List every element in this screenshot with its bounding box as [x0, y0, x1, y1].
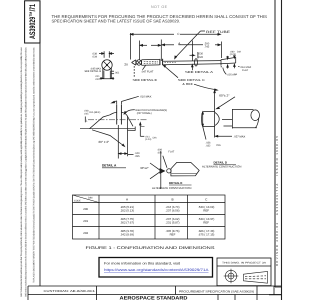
detail D large body with dome end	[232, 109, 259, 129]
svg-text:For more information on this s: For more information on this standard, v…	[104, 262, 180, 266]
barrel knurl texture	[144, 61, 158, 63]
svg-text:ALTERNATE CONSTRUCTION: ALTERNATE CONSTRUCTION	[152, 186, 191, 190]
left margin fine print column 2	[33, 47, 36, 283]
curved leader to detail D angle	[194, 84, 217, 90]
left sidebar document number box	[25, 1, 40, 43]
svg-text:DIA: DIA	[237, 51, 241, 54]
detail A identification band leader	[124, 110, 135, 114]
.016 MAX FLAT callout	[238, 66, 239, 68]
svg-text:.061: .061	[114, 72, 119, 75]
detail A bottom baseline	[80, 128, 135, 130]
icon box title	[222, 261, 267, 264]
contact barrel section with knurl	[142, 59, 160, 65]
svg-text:.045: .045	[84, 112, 89, 115]
2X note at tip	[124, 62, 128, 66]
detail E flat label .008/.004 FLAT	[157, 149, 175, 155]
.047 FLAT callout	[143, 66, 146, 70]
svg-text:FLAT: FLAT	[242, 69, 249, 72]
svg-text:.047 FLAT: .047 FLAT	[141, 71, 154, 74]
right sidebar cell lines	[269, 287, 282, 295]
svg-text:TO PLACE A DOCUMENT ORDER: Tel: TO PLACE A DOCUMENT ORDER: Tel 877-606-7…	[33, 47, 36, 283]
svg-text:NOT OE: NOT OE	[151, 5, 168, 9]
svg-text:FIGURE 1 - CONFIGURATION AND D: FIGURE 1 - CONFIGURATION AND DIMENSIONS	[86, 245, 216, 250]
svg-text:.004: .004	[157, 152, 162, 155]
detail D dome transition	[215, 112, 219, 125]
svg-text:& REF: & REF	[182, 82, 193, 86]
collar ring on rod	[195, 59, 198, 67]
table row 2	[83, 217, 214, 225]
left sidebar document number text AS39029/71	[28, 4, 37, 39]
faint stamp text top center	[151, 5, 168, 9]
SEE DETAIL E callout with dashed leader	[133, 66, 135, 78]
svg-text:290: 290	[83, 207, 88, 211]
detail A left label .048/.045 DIA (REF)	[84, 110, 101, 116]
rod section with tube texture	[163, 61, 221, 65]
figure caption	[86, 245, 216, 250]
wire barrel end section	[221, 57, 236, 65]
detail E bullet profile	[171, 162, 199, 176]
detail A identification band bars	[117, 105, 122, 125]
left margin fine print column 1	[20, 47, 27, 297]
dimension A line	[140, 40, 222, 62]
svg-text:.231 (5.87): .231 (5.87)	[166, 221, 180, 225]
contact ball with hatch	[136, 60, 141, 65]
svg-text:292: 292	[83, 231, 88, 235]
detail D .057 MAX dimension	[215, 135, 232, 137]
svg-text:AEROSPACE STANDARD: AEROSPACE STANDARD	[120, 295, 189, 300]
svg-text:.055: .055	[135, 155, 140, 158]
detail E label	[169, 181, 182, 185]
svg-text:.010 MAX: .010 MAX	[140, 95, 152, 98]
svg-text:CODE: CODE	[74, 200, 81, 203]
svg-text:.302 (7.67): .302 (7.67)	[120, 221, 134, 225]
detail A centerline symbol	[84, 117, 86, 123]
svg-text:REF: REF	[203, 221, 209, 225]
detail A label	[102, 164, 117, 168]
table row 1	[83, 205, 214, 213]
shoulder band bars	[160, 59, 163, 65]
end view left dimension .021/.025	[95, 75, 100, 81]
detail A identification band bracket and .010 MAX	[112, 96, 139, 104]
svg-text:DIA: DIA	[153, 137, 157, 140]
contact tip chamfer	[132, 60, 136, 65]
svg-text:.237 (6.56): .237 (6.56)	[166, 209, 180, 213]
detail E leader from flat label	[163, 156, 167, 168]
svg-text:DIA (REF): DIA (REF)	[89, 111, 100, 114]
right sidebar rotated issue text	[275, 136, 279, 266]
custodian text	[44, 289, 96, 293]
svg-text:B: B	[171, 197, 173, 201]
end view top width label	[92, 53, 98, 59]
svg-text:291: 291	[83, 219, 88, 223]
detail A profile outline	[90, 112, 136, 130]
svg-text:.025: .025	[95, 78, 100, 81]
procurement specification text	[179, 290, 254, 294]
SEE DETAIL A callout	[192, 65, 194, 71]
detail A centerline	[88, 119, 148, 121]
svg-text:SAE reviews each technical rep: SAE reviews each technical report at lea…	[24, 47, 27, 297]
svg-text:DETAIL E: DETAIL E	[169, 181, 182, 185]
end view right dimension .061	[112, 71, 114, 74]
detail D .036/.032 DIA label	[206, 142, 222, 148]
svg-text:THIS DWG. IN PROJECT 3A: THIS DWG. IN PROJECT 3A	[222, 261, 267, 264]
svg-text:REF TUBE: REF TUBE	[206, 30, 230, 34]
svg-text:FLAT: FLAT	[168, 150, 174, 153]
detail E tip oval	[167, 169, 171, 173]
SEE DETAIL C and REF callout	[163, 65, 178, 78]
svg-text:90°±2°: 90°±2°	[140, 166, 148, 170]
stacked dimension .500/.745 on A line	[204, 42, 210, 48]
svg-text:DETAIL A: DETAIL A	[102, 164, 117, 168]
svg-text:.057 MAX: .057 MAX	[234, 135, 246, 138]
icon: contact end circle	[224, 269, 239, 284]
svg-text:.032: .032	[206, 145, 211, 148]
end view body rectangle	[103, 68, 112, 79]
right border outer line	[281, 0, 283, 300]
aerospace standard text	[120, 295, 189, 300]
detail D label	[214, 160, 228, 164]
end view left note .045 MAX SEE DETAIL B	[84, 67, 101, 73]
svg-text:.202 (5.13): .202 (5.13)	[120, 209, 134, 213]
.080 (2.03) DIA label with leader arrows	[230, 50, 242, 56]
svg-text:(OPTIONAL): (OPTIONAL)	[137, 112, 152, 115]
svg-text:.034: .034	[92, 56, 98, 59]
detail A 60 degree chamfer line	[92, 130, 125, 147]
svg-text:REF: REF	[170, 233, 176, 237]
svg-text:DIM: DIM	[88, 197, 92, 200]
detail D 60 degree callout	[214, 90, 235, 137]
small dimension at collar .030/.026	[190, 52, 198, 58]
icon: contact side trapezoid	[244, 271, 268, 283]
end view bottom width dimension	[100, 78, 115, 80]
svg-text:.342 (8.69): .342 (8.69)	[120, 233, 134, 237]
svg-text:DIA: DIA	[217, 144, 222, 147]
svg-text:.675 ( 17.15): .675 ( 17.15)	[198, 233, 214, 237]
left margin vertical rule	[39, 43, 41, 286]
detail E 90 degree angle arrows	[150, 163, 165, 179]
svg-text:2X: 2X	[124, 62, 128, 66]
detail A identification band labels	[135, 109, 167, 115]
svg-text:PROCUREMENT SPECIFICATION (SAE: PROCUREMENT SPECIFICATION (SAE AS39029)	[179, 290, 254, 294]
svg-text:SPECIFICATION SHEET AND THE LA: SPECIFICATION SHEET AND THE LATEST ISSUE…	[52, 19, 181, 24]
svg-text:60°± 2°: 60°± 2°	[219, 93, 230, 97]
svg-text:.026: .026	[198, 56, 204, 59]
detail D front pin cylinder	[202, 112, 215, 127]
svg-text:CUSTODIAN: AE-8/AE-8C1: CUSTODIAN: AE-8/AE-8C1	[44, 289, 96, 293]
right border inner line	[274, 0, 276, 287]
table header texts	[74, 197, 92, 203]
detail D neck	[222, 119, 232, 126]
svg-text:ALTERNATE CONSTRUCTION: ALTERNATE CONSTRUCTION	[202, 164, 241, 168]
svg-text:SAE Technical Standards Board: SAE Technical Standards Board Rules prov…	[20, 47, 23, 297]
detail E vertical line through tip	[160, 151, 162, 189]
table grid	[73, 195, 226, 239]
svg-text:(1.04): (1.04)	[145, 138, 151, 141]
detail A .041 DIA arrow	[140, 123, 145, 137]
svg-text:https://www.sae.org/standards/: https://www.sae.org/standards/content/AS…	[104, 268, 209, 272]
svg-text:.745: .745	[204, 46, 210, 49]
svg-text:REF: REF	[203, 209, 209, 213]
svg-text:SEE DETAIL A: SEE DETAIL A	[185, 70, 213, 74]
detail D left diameter dimension	[202, 112, 206, 140]
svg-text:AS39029™/71: AS39029™/71	[28, 4, 37, 39]
svg-text:SEE DETAIL B: SEE DETAIL B	[84, 70, 101, 73]
requirements statement paragraph	[52, 14, 268, 24]
overall dimension C line	[131, 33, 221, 60]
info box with URL	[99, 258, 213, 278]
svg-text:.025 APP: .025 APP	[227, 73, 238, 76]
detail A vertical dimension with .049/.055	[118, 117, 133, 159]
.025 APP callout	[227, 73, 238, 76]
bottom right icon box	[217, 258, 271, 286]
footer frame lines	[28, 286, 282, 300]
end view circle with cross section hatch	[102, 60, 112, 70]
svg-text:60° ± 2°: 60° ± 2°	[99, 140, 111, 144]
svg-text:SEE DETAIL E: SEE DETAIL E	[133, 78, 158, 82]
end view top width dimension	[99, 51, 114, 57]
REF TUBE label and leader	[206, 30, 230, 34]
table row 3	[83, 229, 214, 237]
